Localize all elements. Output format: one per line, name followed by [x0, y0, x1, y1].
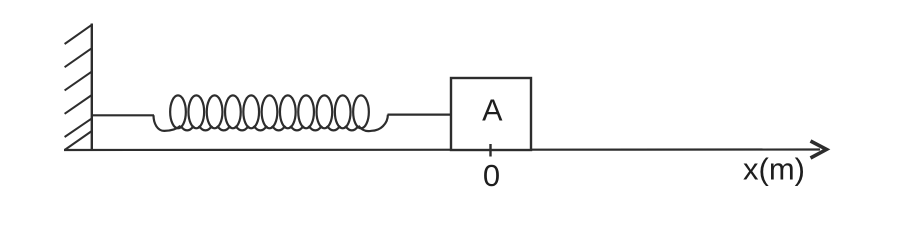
wall hatch 6	[65, 131, 92, 150]
spring coil 5	[243, 95, 259, 128]
spring coil 8	[298, 95, 314, 128]
spring coil 4	[225, 95, 241, 128]
block A	[451, 78, 531, 150]
svg-text:0: 0	[483, 158, 500, 193]
wall hatch 4	[65, 95, 92, 114]
spring coil 2	[188, 95, 204, 128]
wall hatch 3	[65, 72, 92, 91]
svg-text:A: A	[482, 94, 503, 128]
axis arrowhead	[811, 141, 827, 158]
spring coil 1	[170, 95, 186, 128]
wall	[91, 24, 93, 151]
svg-text:x(m): x(m)	[743, 152, 805, 187]
spring coil 11	[353, 95, 369, 128]
spring coil 9	[317, 95, 333, 128]
spring coil 10	[335, 95, 351, 128]
wall hatch 5	[65, 118, 92, 137]
wire: wall to spring	[92, 114, 154, 116]
spring coil 6	[262, 95, 278, 128]
spring coil 3	[207, 95, 223, 128]
spring lead-out	[359, 115, 388, 131]
wall hatch 1	[65, 25, 92, 44]
spring bottom scallops	[180, 126, 358, 131]
wall hatch 2	[65, 48, 92, 67]
spring coil 7	[280, 95, 296, 128]
spring lead-in	[154, 115, 181, 131]
origin tick	[489, 144, 491, 157]
x axis	[64, 148, 820, 151]
wire: spring to block	[388, 113, 452, 115]
